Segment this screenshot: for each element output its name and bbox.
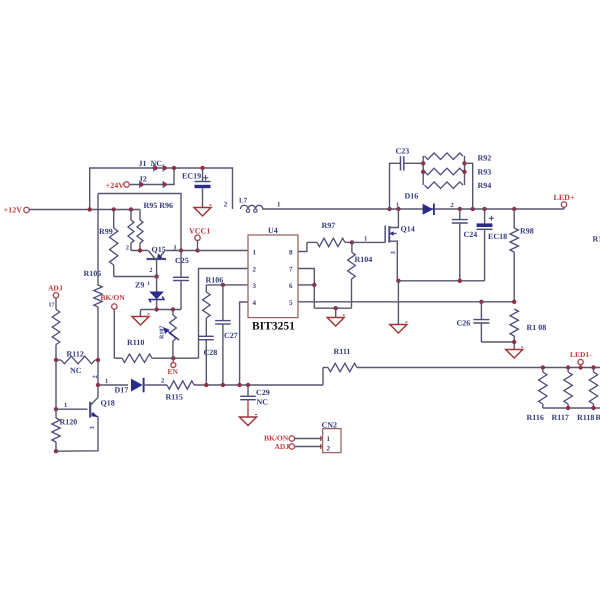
wire Q18 emitter loop <box>56 417 98 451</box>
svg-text:R1: R1 <box>593 235 600 244</box>
capacitor EC19 <box>182 166 211 208</box>
capacitor C24 <box>452 209 477 281</box>
svg-text:NC: NC <box>70 366 82 375</box>
zener Z9 <box>135 277 164 310</box>
svg-text:L7: L7 <box>239 197 248 205</box>
capacitor C27 <box>215 285 238 385</box>
svg-text:VCC1: VCC1 <box>189 227 210 236</box>
svg-text:C28: C28 <box>204 348 218 357</box>
wire BK/ON to R110 <box>114 309 122 358</box>
svg-text:C23: C23 <box>396 147 410 156</box>
wire Q18 base <box>56 402 88 409</box>
terminal LED+ <box>554 193 575 209</box>
terminal BK/ON <box>101 293 126 309</box>
wire R92-bank left bus <box>421 156 425 185</box>
terminal BK/ON CN2 <box>264 434 294 443</box>
resistor R98 <box>510 209 534 302</box>
transistor Q14 <box>385 209 415 281</box>
resistor R97 <box>307 221 352 247</box>
svg-text:R107: R107 <box>160 326 166 339</box>
node LED1- taps <box>541 365 596 369</box>
svg-text:C24: C24 <box>464 230 478 239</box>
terminal VCC1 <box>189 227 210 251</box>
svg-text:C29: C29 <box>256 388 270 397</box>
svg-text:1: 1 <box>147 281 150 287</box>
svg-text:+24V: +24V <box>106 181 125 190</box>
svg-text:6: 6 <box>289 282 293 290</box>
resistor R93 <box>425 168 492 177</box>
resistor R118 <box>577 368 600 423</box>
ground under EC19 <box>194 205 212 216</box>
svg-text:2: 2 <box>92 375 99 378</box>
terminal ADJ CN2 <box>275 442 295 451</box>
svg-text:EC18: EC18 <box>488 232 507 241</box>
svg-text:2: 2 <box>224 201 228 209</box>
wire J1 top net <box>90 168 233 210</box>
svg-text:R98: R98 <box>520 227 534 236</box>
wire ADJ to CN2 <box>295 444 323 449</box>
svg-text:R117: R117 <box>552 413 569 422</box>
wire R-bank bottom rail <box>543 406 600 410</box>
wire R95/R96 bottom node <box>126 245 149 253</box>
transistor Q15 <box>147 245 178 277</box>
svg-text:R110: R110 <box>127 338 144 347</box>
svg-text:C27: C27 <box>224 331 238 340</box>
svg-text:2: 2 <box>327 445 331 453</box>
svg-text:R97: R97 <box>322 221 336 230</box>
svg-text:LED+: LED+ <box>554 193 575 202</box>
wire ADJ net down <box>54 360 58 411</box>
connector J1 NC <box>139 159 167 172</box>
resistor R106 <box>203 276 224 337</box>
svg-text:R92: R92 <box>478 154 492 163</box>
resistor R115 <box>166 381 195 402</box>
svg-text:3: 3 <box>253 282 257 290</box>
diode D16 <box>396 192 454 216</box>
svg-text:BK/ON: BK/ON <box>101 293 126 302</box>
svg-text:2: 2 <box>161 378 164 385</box>
svg-text:J1 NC: J1 NC <box>139 159 163 168</box>
wire +12V rail <box>29 207 140 211</box>
wire J2 net <box>129 166 176 185</box>
wire pin4 net <box>240 302 248 385</box>
wire Z9 ground rail <box>141 307 182 316</box>
capacitor C23 <box>390 147 424 210</box>
svg-text:2: 2 <box>253 266 257 274</box>
svg-text:2: 2 <box>451 202 454 209</box>
capacitor C29 NC <box>240 385 270 417</box>
wire gate wire <box>352 241 385 243</box>
ground under C29 <box>240 415 258 426</box>
wire pin6 net <box>298 283 316 309</box>
svg-text:D16: D16 <box>405 192 419 201</box>
svg-text:4: 4 <box>253 299 257 307</box>
svg-text:1: 1 <box>105 378 108 385</box>
resistor R112 <box>56 350 98 376</box>
wire pin8 net <box>298 242 307 251</box>
resistor ADJ chain <box>52 298 60 360</box>
resistor R96 <box>137 210 143 251</box>
resistor R116 <box>527 368 548 423</box>
resistor R120 <box>52 409 77 453</box>
svg-text:R115: R115 <box>166 393 183 402</box>
resistor R95 <box>128 201 173 251</box>
wire R110 to pin2 corner <box>152 356 199 360</box>
svg-text:1: 1 <box>64 402 67 409</box>
svg-text:7: 7 <box>289 266 293 274</box>
svg-text:NC: NC <box>257 398 269 407</box>
diode D17 <box>115 378 149 395</box>
transistor Q18 <box>89 375 115 429</box>
svg-text:EN: EN <box>168 367 179 376</box>
resistor R94 <box>425 181 492 190</box>
ground under Q14 rail <box>390 322 408 333</box>
wire R92-bank right bus <box>462 156 472 209</box>
svg-text:1: 1 <box>327 435 331 443</box>
svg-text:R111: R111 <box>334 347 351 356</box>
wire D17 to R115 <box>148 378 167 386</box>
capacitor EC18 <box>477 209 508 281</box>
svg-text:1: 1 <box>277 201 281 209</box>
svg-text:1: 1 <box>396 203 399 209</box>
svg-text:Z9: Z9 <box>135 281 144 290</box>
wire pin5 net <box>298 300 514 304</box>
svg-text:ADJ: ADJ <box>275 442 290 451</box>
terminal +12V <box>4 206 30 215</box>
ground under R108 <box>506 347 524 358</box>
connector CN2 <box>322 421 342 453</box>
svg-text:R93: R93 <box>478 168 492 177</box>
capacitor C28 <box>199 336 217 385</box>
svg-text:R104: R104 <box>355 255 373 264</box>
connector J2 <box>139 175 167 189</box>
svg-text:EC19: EC19 <box>182 172 201 181</box>
svg-text:R112: R112 <box>67 350 84 359</box>
svg-text:R120: R120 <box>60 418 78 427</box>
capacitor C25 <box>173 251 189 310</box>
resistor R104 <box>348 242 373 308</box>
wire pin3 net <box>206 283 248 287</box>
svg-text:+12V: +12V <box>4 206 23 215</box>
resistor R108 <box>510 309 546 350</box>
terminal ADJ <box>48 284 63 309</box>
svg-text:1: 1 <box>253 249 257 257</box>
wire net-A top edge <box>98 194 181 252</box>
wire Q14 source rail <box>396 279 484 325</box>
svg-text:5: 5 <box>289 299 293 307</box>
resistor R111 <box>323 347 600 372</box>
svg-text:R95 R96: R95 R96 <box>144 201 174 210</box>
capacitor C26 <box>457 302 515 342</box>
wire pin6/R104 ground link <box>314 306 351 318</box>
wire Q18 collector <box>97 385 99 397</box>
terminal LED1- <box>570 350 592 368</box>
wire VCC1/pin1 net <box>166 248 248 252</box>
resistor R99 <box>99 210 118 277</box>
svg-text:U4: U4 <box>268 226 278 235</box>
wire R111 riser <box>322 368 324 386</box>
wire R115 to R111 <box>194 383 323 387</box>
inductor L7 <box>224 197 281 213</box>
potentiometer R107 <box>160 310 180 359</box>
wire BK/ON to CN2 <box>295 436 323 441</box>
svg-text:2: 2 <box>149 267 152 274</box>
svg-text:17: 17 <box>49 303 55 309</box>
svg-text:LED1-: LED1- <box>570 350 592 359</box>
resistor R105 <box>84 269 103 307</box>
svg-text:D17: D17 <box>115 386 129 395</box>
wire pin7 net <box>298 269 314 285</box>
terminal +24V <box>106 181 130 190</box>
op-amp U4 BIT3251 <box>248 226 298 333</box>
terminal EN <box>168 358 179 376</box>
svg-text:ADJ: ADJ <box>48 284 63 293</box>
node pin5/R98/R108 <box>512 300 516 304</box>
svg-text:C25: C25 <box>175 256 189 265</box>
wire main output line <box>262 207 564 211</box>
node R112 ends <box>54 358 100 362</box>
svg-text:8: 8 <box>289 249 293 257</box>
svg-text:R1 08: R1 08 <box>527 323 547 332</box>
wire R105 net vertical <box>97 194 99 386</box>
svg-text:BIT3251: BIT3251 <box>252 321 295 333</box>
svg-text:R105: R105 <box>84 269 102 278</box>
resistor R1xx clipped <box>593 235 600 244</box>
svg-text:2: 2 <box>126 245 129 252</box>
wire R99 to Q15 base <box>114 274 159 278</box>
resistor R110 <box>122 338 152 362</box>
svg-text:Q18: Q18 <box>101 399 115 408</box>
svg-text:Q14: Q14 <box>401 225 415 234</box>
svg-text:1: 1 <box>364 236 367 243</box>
svg-text:R106: R106 <box>206 276 224 285</box>
ground near Z9 <box>132 314 150 325</box>
svg-text:J2: J2 <box>139 175 147 184</box>
svg-text:C26: C26 <box>457 319 471 328</box>
svg-text:R118: R118 <box>577 413 594 422</box>
node R97/R104/gate <box>350 236 368 245</box>
wire D17 anode net <box>96 378 128 387</box>
wire pin2 net <box>199 269 249 359</box>
ground under U4 <box>327 315 345 326</box>
resistor R92 <box>425 153 492 163</box>
svg-text:R116: R116 <box>527 413 544 422</box>
svg-text:R99: R99 <box>99 227 113 236</box>
resistor R117 <box>552 368 573 423</box>
svg-text:R: R <box>596 413 600 422</box>
svg-text:R94: R94 <box>478 181 492 190</box>
